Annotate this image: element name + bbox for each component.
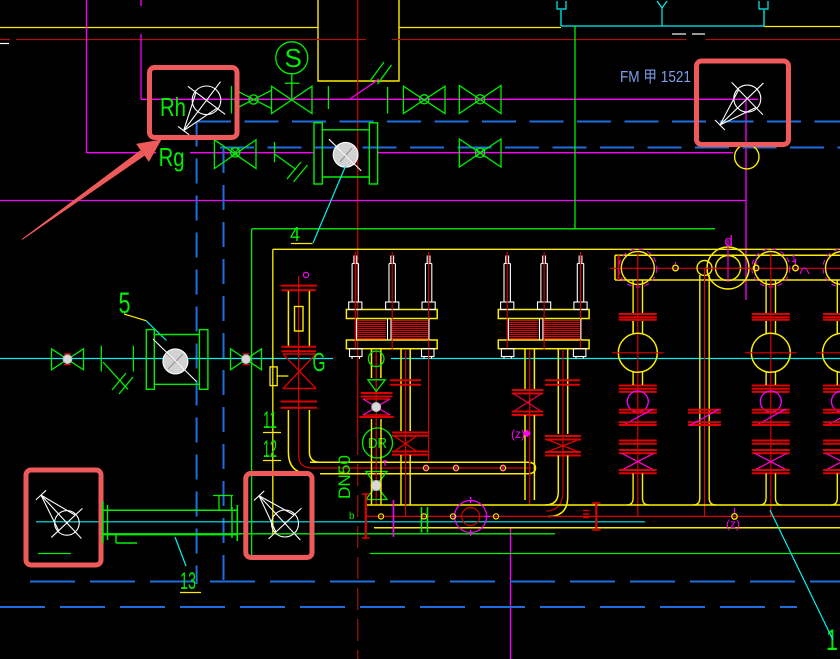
svg-text:Rh: Rh — [160, 92, 186, 122]
centerline vertical x=357.7 lower — [357, 433, 359, 659]
svg-text:11: 11 — [263, 407, 277, 434]
green pipe body — [102, 509, 237, 511]
wire magenta vertical x=746 — [745, 100, 747, 300]
assembly pipe mid (x=638) — [632, 321, 634, 334]
bottom header end flange — [365, 494, 367, 538]
DR instrument circle — [363, 428, 393, 458]
wire magenta vertical x=141 top dash — [140, 0, 142, 6]
wire green long horizontal y=553.5 — [370, 553, 840, 555]
gate valve bowtie with port x=424 — [403, 86, 445, 113]
header centerline — [610, 267, 840, 269]
wire blue dashed vertical x=223.5 — [223, 148, 225, 583]
header port circle (x=771) — [754, 252, 787, 285]
assembly fillet (x=842, clipped) — [831, 498, 837, 505]
flange tick x=231.5 — [231, 86, 233, 114]
wire magenta instrument line y=152.7 right — [378, 152, 733, 154]
header marker x=756 — [753, 265, 759, 271]
wire red line y=39.5 segment d — [706, 39, 840, 41]
skid outline yellow left x=272.8 — [272, 249, 274, 534]
strainer riser 3 centerline (block 1) — [428, 252, 430, 350]
header port circle (x=638) — [621, 252, 654, 285]
gate valve bowtie (S-actuated) — [272, 86, 313, 113]
wire cyan drop at x=561 — [560, 10, 562, 26]
upper pipe centerline — [312, 467, 531, 469]
leader 13 — [180, 592, 201, 594]
block2 outlet2 pipe — [557, 349, 559, 434]
assembly flange set 3 (x=842, clipped) — [823, 440, 840, 442]
assembly pipe upper (x=638) — [632, 280, 634, 313]
duct column top (yellow U-shape) — [318, 0, 399, 81]
wire blue dashed horizontal y=121.5 — [197, 121, 840, 123]
riser x=704.5 fillet — [693, 498, 700, 505]
flange tick x=274.5 — [274, 142, 276, 162]
strainer riser 2 (block 1) — [390, 256, 392, 264]
svg-text:1: 1 — [791, 254, 797, 265]
highlight box bottom-left — [26, 470, 101, 565]
header marker x=675.5 — [673, 265, 679, 271]
header marker x=795.5 — [793, 265, 799, 271]
bottom header drain markers — [378, 514, 383, 519]
strainer riser 1 centerline (block 1) — [354, 252, 356, 350]
train lower flanges — [281, 401, 318, 403]
wire blue dashed horizontal y=581.5 — [30, 581, 840, 583]
green pipe right flange — [236, 505, 238, 541]
svg-text:FM 甲 1521: FM 甲 1521 — [620, 69, 691, 86]
wire red line y=39.5 segment a — [0, 39, 10, 41]
hanger symbol at x=662 — [657, 1, 667, 8]
assembly flange set 2 (x=842, clipped) — [823, 385, 840, 387]
svg-text:Rg: Rg — [159, 142, 185, 172]
strainer top band (block 1) — [346, 310, 437, 319]
riser x=704.5 pipe — [699, 275, 701, 498]
wire blue dashed horizontal y=607 — [0, 606, 797, 608]
svg-text:13: 13 — [180, 568, 196, 595]
assembly flange set 1 (x=842, clipped) — [823, 313, 840, 315]
wire magenta instrument line y=152.7 mid — [190, 152, 314, 154]
block2 outlet2 flange pair — [545, 379, 580, 381]
insulation break double slash — [370, 62, 384, 81]
highlight box Rh — [150, 68, 238, 138]
block2 outlet1 pipe lower — [524, 415, 526, 500]
union flange b (x=638) — [619, 421, 657, 423]
assembly pipe segments (x=842, clipped) — [836, 321, 838, 334]
union slash (x=771) — [756, 409, 786, 426]
wire green vertical x=575 — [574, 26, 576, 229]
assembly fillet (x=771) — [760, 498, 766, 505]
flange tick x=101.3 — [100, 346, 102, 372]
bottom gate valve (x=842, clipped) — [823, 449, 840, 451]
instrument symbol in box1 — [55, 511, 80, 536]
wire magenta vertical x=510.5 bottom — [510, 527, 512, 659]
union flange b (x=771) — [752, 421, 790, 423]
restriction orifice symbol — [455, 501, 487, 533]
block1 outlet1 pipe — [371, 349, 373, 378]
strainer body frame (block 2) — [507, 319, 509, 341]
strainer riser 3 (block 1) — [426, 256, 428, 264]
anchor bracket at x=561 — [557, 1, 566, 9]
header main port circle x=728 — [707, 247, 749, 289]
wire magenta vertical x=86.5 — [86, 0, 88, 153]
bottom header inline flange — [595, 503, 597, 530]
bottom gate valve (x=771) — [752, 449, 790, 451]
block1 outlet1 flange — [361, 392, 393, 394]
block2 outlet1 gate valve — [512, 389, 544, 391]
upper pipe end cap — [527, 462, 536, 474]
bottom header centerline — [365, 515, 840, 517]
green valve bowtie vertical — [366, 472, 387, 486]
assembly flange set 1 (x=638) — [619, 313, 657, 315]
valve body circle (x=638) — [618, 333, 657, 372]
svg-text:4: 4 — [290, 224, 300, 246]
header small port circle x=704.5 — [697, 261, 712, 276]
strainer riser 1 centerline (block 2) — [506, 252, 508, 350]
instrument symbol in Rh box — [192, 86, 221, 115]
header band left cap — [614, 255, 616, 280]
bottom header top wall — [367, 504, 840, 506]
wire cyan drop at x=764 — [763, 10, 765, 26]
flow element flanges (upper) — [314, 123, 322, 184]
block1 outlet1 riser walls — [371, 419, 373, 505]
assembly flange set 2 (x=771) — [752, 385, 790, 387]
flange tick x=387.6 — [387, 87, 389, 114]
train control valve X — [283, 354, 316, 389]
train mid flanges — [282, 346, 317, 348]
strainer bottom band (block 1) — [346, 340, 437, 349]
strainer element stripes (block 1) — [357, 320, 387, 322]
highlight box FM — [697, 61, 789, 145]
upper pipe magenta tick — [384, 460, 386, 466]
strainer riser 2 centerline (block 2) — [543, 252, 545, 350]
union slash (x=638) — [623, 409, 653, 426]
wire yellow top supply line right segment — [399, 27, 561, 29]
magenta tick near riser2 — [393, 500, 395, 537]
bottom gate valve (x=638) — [619, 449, 657, 451]
centerline vertical x=357.7 upper — [357, 0, 359, 433]
union flange a (x=638) — [619, 409, 657, 411]
strainer riser 3 (block 2) — [578, 256, 580, 264]
svg-text:DN50: DN50 — [335, 455, 354, 499]
leader 1 — [770, 510, 833, 640]
assembly pipe mid (x=771) — [765, 321, 767, 334]
gate valve bowtie x=246 — [231, 349, 262, 370]
svg-text:(z): (z) — [511, 427, 525, 441]
wire magenta horizontal y=200.5 — [0, 200, 746, 202]
solenoid actuator S circle — [276, 42, 308, 74]
white dash marker left edge — [0, 43, 9, 45]
leader for label 4 — [291, 243, 313, 245]
block1 outlet2 pipe — [400, 349, 402, 431]
TT instrument ticks — [213, 495, 233, 497]
actuator stem — [291, 74, 293, 100]
slope symbol with double slash — [103, 362, 128, 390]
block1 outlet2 pipe lower — [400, 455, 402, 462]
strainer riser 1 (block 2) — [505, 256, 507, 264]
anchor bracket at x=764 — [759, 1, 768, 9]
assembly centerline (x=771) — [770, 253, 772, 516]
svg-text:(z): (z) — [726, 517, 740, 531]
wire yellow top supply line left segment — [0, 27, 318, 29]
filter body yellow — [287, 291, 289, 346]
assembly centerline (x=638) — [637, 253, 639, 516]
strainer body frame (block 1) — [356, 319, 358, 341]
pipe centerline cyan bottom y=521.8 — [36, 521, 645, 523]
flow element hatched sensor (left) — [163, 349, 188, 374]
svg-text:G: G — [313, 347, 326, 377]
equipment boundary green bottom y=533.8 — [102, 533, 555, 535]
strainer top band (block 2) — [498, 310, 589, 319]
bottom header bottom wall — [374, 527, 840, 529]
block1 outlet2 flange pair — [390, 379, 421, 381]
strainer riser 2 centerline (block 1) — [391, 252, 393, 350]
ring on main line — [368, 351, 384, 367]
callout arrow — [22, 150, 145, 240]
train lower pipe — [287, 410, 289, 452]
equipment boundary green left x=251.6 — [251, 229, 253, 560]
white dash marker a — [672, 33, 686, 35]
gate valve bowtie x=480 row2 — [459, 139, 501, 167]
svg-text:12: 12 — [263, 436, 277, 463]
train top flange — [281, 285, 318, 287]
gate valve bowtie x=235 — [214, 140, 256, 169]
leader 12 — [263, 460, 281, 462]
assembly flange set 2 (x=638) — [619, 385, 657, 387]
pipe centerline cyan main y=358.5 right — [391, 358, 840, 360]
block2 outlet2 gate valve — [545, 435, 581, 437]
flow element hatched sensor (upper) — [333, 142, 358, 167]
control valve with positioner — [363, 399, 390, 415]
wire magenta vertical x=141 — [140, 34, 142, 99]
strainer1 extra centerline — [428, 350, 430, 462]
marker small circle — [303, 272, 308, 277]
block1 outlet1 lower flange — [359, 416, 394, 418]
wire cyan top header line — [561, 25, 764, 27]
train elbow to upper pipe — [288, 452, 310, 474]
wire magenta horizontal y=153 left stub — [87, 152, 157, 154]
assembly pipe upper (x=771) — [765, 280, 767, 313]
wire magenta riser to slash symbol — [350, 79, 379, 99]
valve body circle (x=842, clipped) — [823, 333, 840, 372]
skid outline yellow top y=249.3 — [273, 248, 840, 250]
union flange a (x=842, clipped) — [823, 409, 840, 411]
assembly fillet (x=638) — [627, 498, 633, 505]
slope drain symbol — [275, 154, 297, 170]
wire yellow top supply line far right segment — [764, 26, 840, 28]
gate valve bowtie x=67.5 — [52, 349, 84, 370]
flange tick x=133.4 — [132, 346, 134, 372]
green pipe foot — [115, 535, 117, 543]
funnel drain green — [368, 380, 385, 392]
assembly flange set 3 (x=771) — [752, 440, 790, 442]
inline instrument yellow circle — [735, 145, 759, 169]
valve ball x=67.5 — [63, 355, 72, 364]
green pipe left flange — [102, 502, 104, 544]
assembly flange set 1 (x=771) — [752, 313, 790, 315]
block1 outlet2 tee — [400, 462, 402, 505]
instrument symbol in box2 — [272, 510, 299, 537]
strainer feet (block 2) — [501, 349, 514, 357]
flow element flanges (left) — [146, 330, 154, 390]
block2 outlet1 pipe — [524, 349, 526, 390]
assembly pipe segments (x=771) — [765, 321, 767, 334]
svg-text:b: b — [349, 511, 355, 522]
actuator ball magenta (x=638) — [627, 391, 648, 412]
flange tick x=328.4 — [327, 86, 329, 109]
strainer feet (block 1) — [350, 349, 363, 357]
strainer riser 3 centerline (block 2) — [580, 252, 582, 350]
branch fitting yellow box — [270, 367, 277, 386]
equipment boundary green top y=228.8 — [252, 228, 715, 230]
valve body circle (x=771) — [751, 333, 790, 372]
union flange a (x=771) — [752, 409, 790, 411]
block2 outlet2 elbow — [545, 456, 558, 506]
assembly flange set 3 (x=638) — [619, 440, 657, 442]
wire magenta instrument line y=99.3 — [141, 98, 758, 100]
union slash (x=842, clipped) — [827, 409, 840, 426]
assembly pipe segments (x=638) — [632, 321, 634, 334]
strainer element stripes (block 2) — [508, 320, 538, 322]
riser x=704.5 union — [688, 409, 721, 411]
assembly pipe mid (x=842, clipped) — [836, 321, 838, 334]
leader 11 — [263, 432, 281, 434]
header port circle (x=842, clipped) — [826, 252, 840, 285]
pipe centerline cyan main y=358.5 left — [0, 358, 333, 360]
strainer bottom band (block 2) — [498, 340, 589, 349]
actuator ball magenta (x=771) — [760, 391, 781, 412]
wire blue dashed vertical x=196.6 — [196, 122, 198, 585]
assembly pipe upper (x=842, clipped) — [836, 280, 838, 313]
strainer riser 1 (block 1) — [353, 256, 355, 264]
upper pipe walls — [310, 461, 527, 463]
svg-text:S: S — [285, 43, 302, 73]
wire blue dashed horizontal y=147.5 — [220, 147, 840, 149]
union flange b (x=842, clipped) — [823, 421, 840, 423]
spectacle blind green — [421, 507, 423, 533]
leader for label 5 — [124, 314, 146, 321]
valve ball x=246 — [242, 355, 251, 364]
gate valve bowtie with port x=480 — [459, 86, 501, 114]
valve X-type with port circle — [236, 90, 272, 108]
header magenta omega marker — [800, 268, 809, 274]
wire green short y=553.5 left — [38, 553, 71, 555]
highlight box bottom-mid — [246, 474, 312, 558]
wire red line y=39.5 segment b — [16, 39, 366, 41]
header band walls — [615, 254, 840, 256]
upper pipe vent markers — [423, 465, 428, 470]
block1 outlet2 gate valve — [392, 432, 428, 434]
wire red line y=39.5 segment c — [392, 39, 686, 41]
actuator ball magenta (x=842, clipped) — [832, 391, 840, 412]
instrument symbol in FM box — [734, 85, 761, 112]
white dash marker b — [692, 33, 705, 35]
strainer riser 2 (block 2) — [542, 256, 544, 264]
train centerline — [298, 276, 300, 455]
